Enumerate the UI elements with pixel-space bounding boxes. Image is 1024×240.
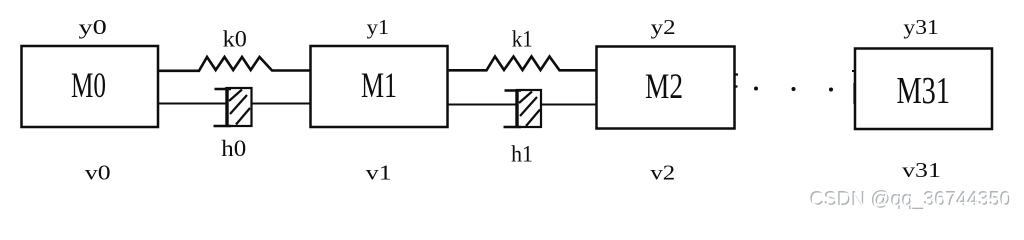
svg-text:v31: v31 [902, 158, 941, 182]
svg-text:y0: y0 [79, 15, 107, 39]
svg-text:h1: h1 [511, 142, 533, 167]
svg-text:v0: v0 [85, 161, 111, 185]
svg-text:y31: y31 [903, 15, 939, 39]
svg-text:CSDN @qq_36744350: CSDN @qq_36744350 [811, 190, 1012, 212]
svg-text:v2: v2 [650, 161, 675, 185]
svg-text:y2: y2 [651, 15, 676, 39]
svg-text:v1: v1 [366, 161, 392, 185]
svg-text:M2: M2 [645, 66, 683, 106]
svg-text:k0: k0 [223, 27, 247, 52]
svg-text:h0: h0 [221, 136, 246, 161]
svg-text:M31: M31 [897, 70, 951, 112]
svg-text:k1: k1 [512, 27, 533, 52]
svg-text:M0: M0 [71, 65, 106, 105]
svg-text:M1: M1 [361, 65, 397, 105]
svg-text:y1: y1 [367, 15, 390, 39]
